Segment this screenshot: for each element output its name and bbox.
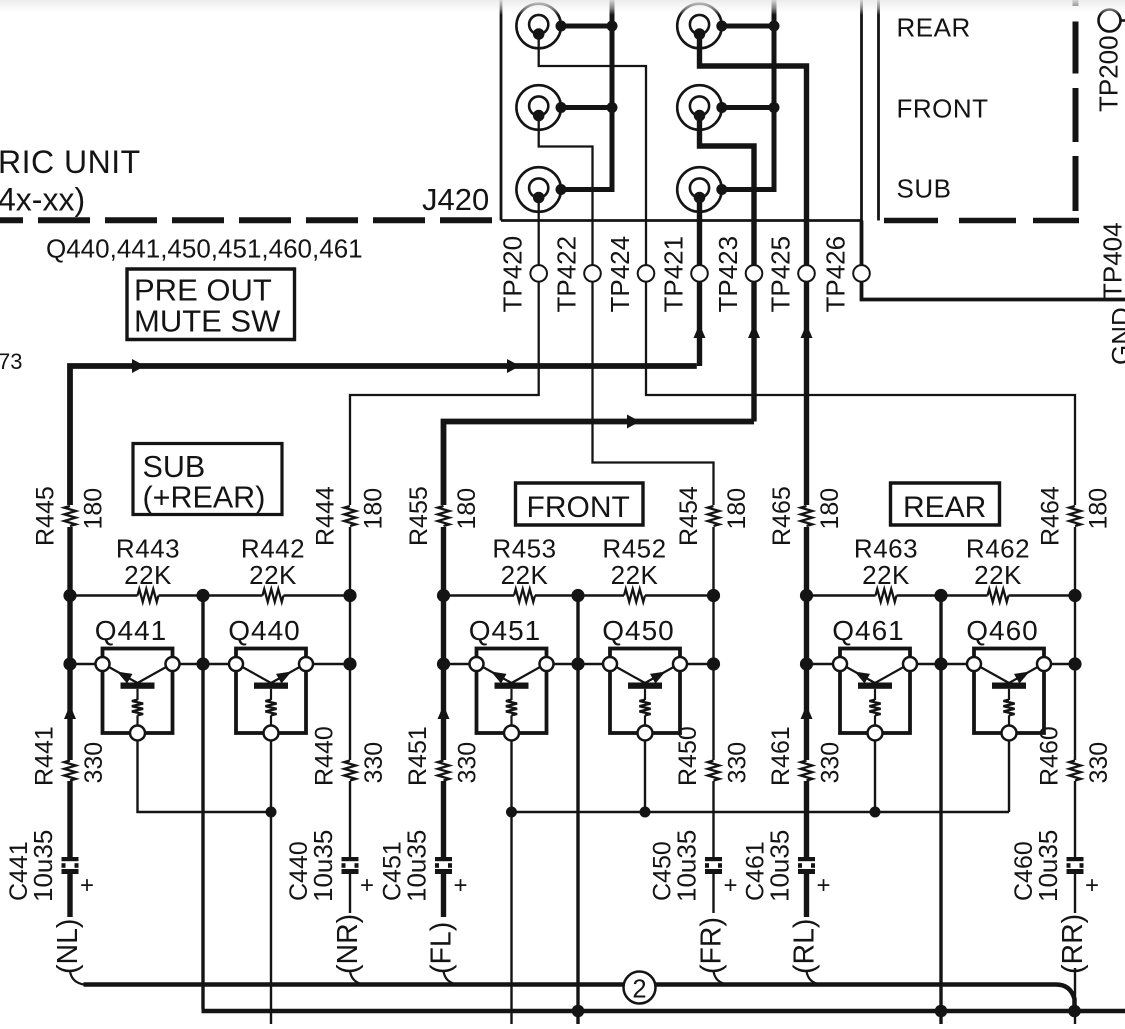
svg-text:10u35: 10u35: [1033, 830, 1063, 902]
capacitor C460 10u35: [1067, 857, 1084, 874]
wire 22K row R443: [70, 594, 138, 596]
transistor Q460: [967, 649, 1051, 741]
svg-text:180: 180: [723, 488, 751, 530]
capacitor C450 10u35: [705, 857, 722, 874]
svg-text:GND: GND: [1106, 307, 1125, 365]
label panel left edge: [877, 0, 880, 221]
wire base row: [807, 663, 841, 665]
svg-text:+: +: [454, 872, 468, 899]
wire column 455 down: [441, 527, 446, 760]
resistor R440 330: [344, 761, 356, 781]
svg-text:(FR): (FR): [696, 917, 728, 974]
wire 22K row R462: [941, 594, 988, 596]
svg-text:+: +: [360, 872, 374, 899]
svg-text:330: 330: [360, 742, 388, 784]
resistor R452 22K: [624, 589, 645, 602]
wire 22K row R462: [1009, 594, 1076, 596]
svg-text:R450: R450: [674, 726, 702, 786]
junction bus B: [935, 1005, 948, 1018]
test point TP421: [691, 265, 708, 282]
junction: [800, 589, 813, 602]
wire 22K row R453: [535, 594, 578, 596]
wire port arc: [714, 971, 728, 985]
jack SUB-L (RCA): [516, 167, 566, 212]
wire port arc: [444, 971, 458, 985]
transistor Q461: [833, 649, 917, 741]
svg-text:PRE OUT: PRE OUT: [134, 273, 272, 308]
junction bus B: [572, 1005, 585, 1018]
wire 22K row R442: [203, 594, 263, 596]
jack FRONT-R (RCA): [677, 85, 727, 130]
svg-text:TP404: TP404: [1098, 222, 1125, 299]
wire GND from TP426: [862, 221, 1125, 300]
wire 22K row R452: [645, 594, 714, 596]
svg-text:22K: 22K: [862, 560, 910, 590]
jack REAR-L (RCA): [516, 4, 566, 49]
jack REAR-R (RCA): [677, 4, 727, 49]
wire port arc: [70, 971, 84, 985]
svg-text:+: +: [1085, 872, 1099, 899]
arrow up TP423 line: [748, 324, 760, 338]
svg-text:R445: R445: [32, 486, 60, 546]
junction: [196, 589, 209, 602]
junction: [707, 589, 720, 602]
svg-text:R442: R442: [241, 534, 305, 564]
svg-text:Q460: Q460: [966, 615, 1039, 646]
resistor R442 22K: [263, 589, 284, 602]
resistor R455 180: [438, 506, 450, 526]
svg-text:TP424: TP424: [605, 236, 635, 313]
capacitor C451 10u35: [435, 857, 452, 874]
junction: [800, 657, 813, 670]
svg-text:REAR: REAR: [897, 13, 971, 43]
svg-text:TP426: TP426: [821, 236, 851, 313]
test point TP425: [798, 265, 815, 282]
box SUB (+REAR): [133, 444, 282, 515]
svg-text:FRONT: FRONT: [527, 491, 630, 524]
arrow on mute bus 1: [507, 359, 520, 373]
svg-text:180: 180: [360, 488, 388, 530]
wire Q451 emitter down: [510, 740, 512, 1024]
transistor Q450: [603, 649, 687, 741]
connector J420 box left edge: [500, 0, 503, 221]
svg-text:(RR): (RR): [1057, 914, 1089, 974]
junction: [640, 807, 651, 818]
arrow up TP425 line: [801, 324, 813, 338]
arrow up TP421 line: [694, 324, 706, 338]
svg-text:TP421: TP421: [659, 236, 689, 313]
svg-text:10u35: 10u35: [28, 830, 58, 902]
svg-text:FRONT: FRONT: [897, 94, 989, 124]
svg-text:TP420: TP420: [498, 236, 528, 313]
junction: [63, 657, 76, 670]
svg-text:Q451: Q451: [469, 615, 542, 646]
svg-text:R462: R462: [966, 534, 1030, 564]
arrow on mute bus 2: [627, 415, 640, 429]
svg-text:180: 180: [80, 488, 108, 530]
wire REAR-L jack to TP424 and R464: [539, 35, 1075, 506]
wire mute bus 2: [444, 422, 755, 506]
wire RR line to bottom: [1074, 968, 1076, 1024]
svg-text:(NR): (NR): [332, 914, 364, 974]
bus A end curve into RR line: [1056, 985, 1075, 1012]
wire port arc: [807, 971, 821, 985]
resistor R454 180: [708, 506, 720, 526]
svg-text:10u35: 10u35: [308, 830, 338, 902]
wire jack shield stub: [722, 24, 775, 29]
junction: [769, 21, 780, 32]
wire emitter row groups 2-3: [512, 811, 1010, 813]
wire SUB-R jack down TP421: [697, 198, 702, 366]
test point TP423: [746, 265, 763, 282]
junction: [934, 589, 947, 602]
svg-text:R454: R454: [675, 486, 703, 546]
resistor R464 180: [1069, 506, 1081, 526]
svg-text:MUTE SW: MUTE SW: [134, 304, 281, 339]
junction: [1068, 657, 1081, 670]
svg-text:TP200: TP200: [1094, 35, 1124, 112]
transistor Q441: [96, 649, 180, 741]
wire 22K row R463: [807, 594, 876, 596]
svg-text:(NL): (NL): [52, 919, 84, 974]
junction: [437, 589, 450, 602]
transistor Q451: [470, 649, 554, 741]
resistor R465 180: [801, 506, 813, 526]
wire Q461 emitter: [874, 740, 876, 812]
svg-text:73: 73: [0, 349, 22, 374]
svg-text:R465: R465: [768, 486, 796, 546]
resistor R443 22K: [138, 589, 159, 602]
svg-text:+: +: [80, 872, 94, 899]
connector J420 box right edge: [860, 0, 863, 221]
wire divider group1 to bus B: [201, 596, 204, 1010]
wire base row: [680, 663, 714, 665]
junction: [196, 657, 209, 670]
wire REAR-R jack down TP425: [700, 35, 807, 506]
capacitor C441 10u35: [62, 857, 79, 874]
svg-text:R460: R460: [1036, 726, 1064, 786]
wire column 454 down: [712, 527, 714, 760]
wire base row: [173, 663, 237, 665]
wire SUB-L jack to TP420 and R444: [350, 198, 539, 505]
svg-text:Q450: Q450: [602, 615, 675, 646]
wire base row: [70, 663, 103, 665]
wire FRONT-R jack to TP423: [700, 116, 755, 422]
junction: [1068, 589, 1081, 602]
junction: [63, 589, 76, 602]
junction: [571, 589, 584, 602]
test point TP422: [584, 265, 601, 282]
arrow up mute drive: [801, 705, 813, 719]
jack SUB-R (RCA): [677, 167, 727, 212]
bus B: [202, 1009, 1125, 1014]
svg-text:Q441: Q441: [95, 615, 168, 646]
wire Q460 emitter: [1008, 740, 1010, 812]
resistor R451 330: [438, 761, 450, 781]
svg-text:R440: R440: [311, 726, 339, 786]
junction bus B: [1068, 1005, 1081, 1018]
resistor R453 22K: [514, 589, 535, 602]
wire 22K row R442: [284, 594, 351, 596]
svg-text:R463: R463: [854, 534, 918, 564]
svg-text:330: 330: [1085, 742, 1113, 784]
test point TP420: [530, 265, 547, 282]
resistor R444 180: [344, 506, 356, 526]
svg-text:R444: R444: [312, 486, 340, 546]
svg-text:Q461: Q461: [832, 615, 905, 646]
wire 22K row R463: [897, 594, 942, 596]
svg-text:180: 180: [453, 488, 481, 530]
svg-text:R443: R443: [116, 534, 180, 564]
resistor R445 180: [64, 506, 76, 526]
svg-text:330: 330: [454, 742, 482, 784]
jack FRONT-L (RCA): [516, 85, 566, 130]
wire base row: [910, 663, 974, 665]
svg-text:22K: 22K: [501, 560, 549, 590]
wire column 465 down: [804, 527, 809, 760]
box REAR: [891, 483, 1000, 525]
connector J420 box bottom edge: [501, 219, 862, 222]
svg-text:TP423: TP423: [713, 236, 743, 313]
junction: [607, 21, 618, 32]
svg-text:10u35: 10u35: [402, 830, 432, 902]
wire Q441 emitter: [138, 740, 272, 812]
svg-text:R453: R453: [492, 534, 556, 564]
svg-text:TP422: TP422: [552, 236, 582, 313]
arrow up mute drive: [438, 705, 450, 719]
svg-text:+: +: [817, 872, 831, 899]
junction: [769, 102, 780, 113]
svg-text:TP425: TP425: [766, 236, 796, 313]
wire mute bus 1: [70, 366, 697, 505]
svg-text:R441: R441: [31, 726, 59, 786]
wire column 444 down: [349, 527, 351, 760]
resistor R441 330: [64, 761, 76, 781]
wire shield bus left column: [561, 0, 612, 190]
svg-text:(RL): (RL): [789, 919, 821, 974]
svg-text:(+REAR): (+REAR): [143, 481, 266, 515]
junction: [607, 102, 618, 113]
resistor R461 330: [801, 761, 813, 781]
wire FRONT-L jack to TP422 and R454: [539, 116, 714, 505]
svg-text:180: 180: [1085, 488, 1113, 530]
wire 22K row R453: [444, 594, 515, 596]
wire divider group3: [939, 596, 942, 1025]
page connector 2: [624, 972, 656, 1004]
junction: [707, 657, 720, 670]
bus A left segment: [84, 982, 625, 987]
junction: [266, 807, 277, 818]
junction: [343, 589, 356, 602]
svg-text:Q440,441,450,451,460,461: Q440,441,450,451,460,461: [46, 234, 363, 264]
wire Q440 emitter down: [270, 740, 272, 1024]
arrow on mute bus 1: [132, 359, 145, 373]
svg-text:R464: R464: [1037, 486, 1065, 546]
dashed chassis boundary left: [0, 217, 501, 223]
svg-text:SUB: SUB: [897, 174, 952, 204]
dashed chassis boundary bottom right: [884, 218, 1079, 223]
resistor R463 22K: [876, 589, 897, 602]
capacitor C440 10u35: [342, 857, 359, 874]
wire 22K row R443: [159, 594, 204, 596]
resistor R460 330: [1069, 761, 1081, 781]
svg-text:R461: R461: [767, 726, 795, 786]
box PRE OUT MUTE SW: [127, 269, 295, 340]
svg-text:R455: R455: [405, 486, 433, 546]
junction: [437, 657, 450, 670]
test point TP424: [638, 265, 655, 282]
dashed chassis boundary vertical: [1073, 0, 1079, 211]
junction: [934, 657, 947, 670]
svg-text:R451: R451: [404, 726, 432, 786]
svg-text:330: 330: [817, 742, 845, 784]
top page edge shading: [0, 0, 1125, 15]
svg-text:22K: 22K: [611, 560, 659, 590]
wire jack shield stub: [561, 105, 612, 110]
junction: [571, 657, 584, 670]
svg-text:R452: R452: [602, 534, 666, 564]
wire 22K row R452: [578, 594, 624, 596]
svg-text:(FL): (FL): [426, 922, 458, 974]
svg-text:2: 2: [632, 975, 646, 1003]
svg-text:RIC UNIT: RIC UNIT: [0, 144, 141, 180]
resistor R450 330: [708, 761, 720, 781]
wire base row: [547, 663, 611, 665]
wire base row: [1044, 663, 1075, 665]
box FRONT: [516, 483, 644, 525]
svg-text:REAR: REAR: [903, 491, 986, 524]
arrow up mute drive: [64, 705, 76, 719]
wire port arc: [350, 971, 364, 985]
test point TP200: [1099, 10, 1121, 32]
test point TP426: [853, 265, 870, 282]
svg-text:SUB: SUB: [143, 450, 206, 484]
wire jack shield stub: [722, 105, 775, 110]
junction: [870, 807, 881, 818]
svg-text:180: 180: [816, 488, 844, 530]
svg-text:22K: 22K: [124, 560, 172, 590]
svg-text:10u35: 10u35: [765, 830, 795, 902]
transistor Q440: [229, 649, 313, 741]
svg-text:10u35: 10u35: [672, 830, 702, 902]
svg-text:22K: 22K: [249, 560, 297, 590]
junction: [343, 657, 356, 670]
wire Q450 emitter: [644, 740, 646, 812]
junction: [506, 807, 517, 818]
svg-text:330: 330: [80, 742, 108, 784]
wire base row: [306, 663, 350, 665]
wire divider group2: [576, 596, 579, 1025]
resistor R462 22K: [988, 589, 1009, 602]
wire jack shield stub: [561, 24, 612, 29]
wire column 464 down: [1074, 527, 1076, 760]
svg-text:+: +: [724, 872, 738, 899]
svg-text:4x-xx): 4x-xx): [0, 182, 85, 218]
capacitor C461 10u35: [798, 857, 815, 874]
svg-text:22K: 22K: [974, 560, 1022, 590]
svg-text:Q440: Q440: [228, 615, 301, 646]
svg-text:J420: J420: [422, 182, 489, 217]
wire shield bus right column: [722, 0, 775, 190]
svg-text:330: 330: [724, 742, 752, 784]
wire base row: [444, 663, 477, 665]
wire column 445 down: [67, 527, 72, 760]
bus A right segment: [656, 982, 1057, 987]
